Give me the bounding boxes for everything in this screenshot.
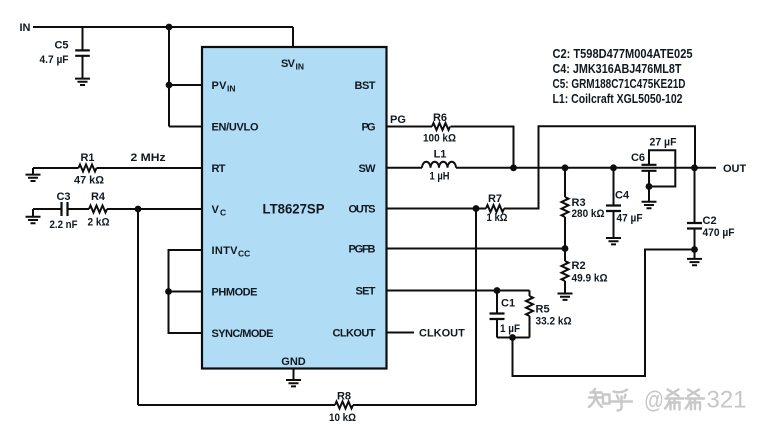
svg-text:C5: C5: [54, 40, 68, 52]
svg-text:PG: PG: [390, 114, 406, 126]
pin label CLKOUT: [333, 328, 376, 340]
wire SVIN drop: [292, 27, 294, 47]
wire VC line: [33, 208, 202, 210]
wire feedback column right: [475, 209, 477, 406]
IC U1 LT8627SP body: [202, 47, 387, 369]
inductor L1: [422, 149, 456, 183]
node CLKOUT label: [419, 328, 465, 340]
ground IC GND: [286, 369, 301, 387]
svg-text:V: V: [212, 204, 220, 216]
svg-text:R2: R2: [572, 260, 586, 272]
wire PGFB line: [387, 248, 566, 250]
wire CLKOUT stub: [387, 332, 415, 334]
svg-text:BST: BST: [355, 80, 376, 92]
capacitor C5: [40, 27, 90, 78]
capacitor C3: [50, 191, 78, 231]
junction SW/C4: [610, 164, 617, 171]
ground C5: [75, 79, 90, 85]
capacitor C2: [687, 168, 735, 250]
wire feedback column left: [137, 209, 139, 405]
pin label GND: [281, 356, 306, 368]
wire RT line: [33, 167, 202, 169]
pin label SW: [359, 163, 377, 175]
svg-text:INTV: INTV: [212, 245, 239, 257]
svg-text:C2: C2: [703, 215, 717, 227]
junction OUTS / feedback column: [473, 205, 480, 212]
junction OUT node: [691, 164, 698, 171]
wire C1R5 top: [497, 290, 530, 292]
svg-text:C2: T598D477M004ATE025: C2: T598D477M004ATE025: [553, 46, 693, 61]
svg-text:CC: CC: [238, 249, 250, 259]
svg-text:L1: Coilcraft XGL5050-102: L1: Coilcraft XGL5050-102: [553, 91, 683, 106]
svg-text:OUTS: OUTS: [349, 204, 376, 216]
svg-text:SW: SW: [359, 163, 377, 175]
resistor R3: [562, 168, 605, 249]
svg-text:C: C: [220, 208, 226, 218]
junction PVIN: [166, 82, 173, 89]
svg-text:2 kΩ: 2 kΩ: [88, 217, 110, 229]
svg-text:100 kΩ: 100 kΩ: [423, 132, 456, 144]
pin label INTVCC: [212, 245, 251, 259]
pin label SVIN: [281, 58, 304, 72]
pin label OUTS: [349, 204, 376, 216]
junction SW/R3: [562, 164, 569, 171]
wire IN rail: [33, 26, 293, 28]
svg-text:LT8627SP: LT8627SP: [263, 201, 325, 217]
svg-text:PV: PV: [212, 80, 228, 92]
svg-text:1 kΩ: 1 kΩ: [487, 212, 508, 224]
wire PVIN: [169, 84, 202, 86]
svg-text:R6: R6: [433, 112, 447, 124]
wire input column: [168, 27, 170, 127]
wire OUTS line: [387, 126, 696, 208]
pin label EN/UVLO: [212, 122, 259, 134]
svg-text:33.2 kΩ: 33.2 kΩ: [536, 316, 572, 328]
svg-text:C5: GRM188C71C475KE21D: C5: GRM188C71C475KE21D: [553, 76, 686, 91]
svg-text:OUT: OUT: [723, 163, 747, 175]
svg-text:C4: JMK316ABJ476ML8T: C4: JMK316ABJ476ML8T: [553, 61, 682, 76]
svg-text:RT: RT: [212, 163, 226, 175]
wire SET line: [387, 290, 498, 292]
pin label VC: [212, 204, 227, 218]
wire C1R5 bottom: [497, 337, 530, 339]
ground C6: [642, 187, 657, 209]
pin label PHMODE: [212, 287, 258, 299]
svg-text:C6: C6: [631, 152, 645, 164]
svg-text:R5: R5: [536, 304, 550, 316]
ground C2: [687, 250, 702, 266]
watermark zhihu: [589, 389, 704, 411]
svg-text:27 µF: 27 µF: [650, 137, 677, 149]
junction C2 bottom: [691, 246, 698, 253]
pin label BST: [355, 80, 376, 92]
capacitor C1: [490, 291, 521, 338]
ground C4: [606, 238, 621, 244]
pin label SYNC/MODE: [212, 328, 274, 340]
svg-text:CLKOUT: CLKOUT: [333, 328, 376, 340]
node IN: [20, 22, 31, 34]
svg-text:10 kΩ: 10 kΩ: [329, 412, 356, 424]
svg-text:4.7 µF: 4.7 µF: [40, 54, 69, 66]
svg-text:CLKOUT: CLKOUT: [419, 328, 465, 340]
svg-text:1 µF: 1 µF: [500, 323, 520, 335]
wire C2 bottom return: [513, 250, 695, 377]
svg-text:280 kΩ: 280 kΩ: [572, 208, 605, 220]
svg-text:L1: L1: [434, 149, 447, 161]
node OUT: [723, 163, 747, 175]
svg-text:EN/UVLO: EN/UVLO: [212, 122, 259, 134]
svg-text:1 µH: 1 µH: [430, 171, 450, 183]
junction VC / feedback column: [135, 206, 142, 213]
svg-text:R4: R4: [91, 191, 106, 203]
ground VC: [26, 209, 41, 223]
junction PGFB divider: [562, 245, 569, 252]
junction PHMODE: [165, 288, 172, 295]
svg-text:SV: SV: [281, 58, 296, 70]
capacitor C4: [606, 168, 643, 238]
svg-text:PGFB: PGFB: [349, 244, 376, 256]
svg-text:R7: R7: [488, 193, 502, 205]
resistor R1: [74, 152, 104, 187]
pin label PVIN: [212, 80, 236, 94]
svg-text:47 kΩ: 47 kΩ: [74, 175, 104, 187]
svg-text:GND: GND: [281, 356, 306, 368]
ground RT: [26, 168, 41, 181]
wire PG line: [387, 127, 514, 168]
resistor R2: [562, 249, 608, 294]
svg-text:PHMODE: PHMODE: [212, 287, 258, 299]
resistor R7: [486, 193, 508, 224]
svg-text:470 µF: 470 µF: [703, 227, 735, 239]
resistor R8: [329, 391, 356, 425]
junction IN rail / input column: [166, 24, 173, 31]
junction PG/SW: [510, 164, 517, 171]
svg-text:C3: C3: [56, 191, 70, 203]
wire C6 bypass loop: [649, 137, 677, 187]
svg-text:C4: C4: [615, 190, 630, 202]
svg-text:C1: C1: [501, 298, 515, 310]
pin label RT: [212, 163, 226, 175]
ground R2: [558, 294, 573, 300]
label 2 MHz: [131, 152, 167, 164]
svg-text:IN: IN: [227, 84, 236, 94]
svg-text:321: 321: [707, 387, 747, 414]
svg-text:R1: R1: [80, 152, 94, 164]
svg-text:SYNC/MODE: SYNC/MODE: [212, 328, 274, 340]
svg-text:2.2 nF: 2.2 nF: [50, 219, 78, 231]
wire PHMODE: [169, 291, 203, 293]
pin label SET: [356, 286, 376, 298]
svg-text:R8: R8: [337, 391, 351, 403]
pin label PG: [362, 122, 376, 134]
svg-text:49.9 kΩ: 49.9 kΩ: [572, 273, 608, 285]
wire INTVCC: [169, 250, 203, 333]
svg-text:47 µF: 47 µF: [617, 213, 643, 225]
wire SW line: [387, 167, 717, 169]
resistor R4: [88, 191, 110, 229]
node PG label: [390, 114, 406, 126]
junction C6 bottom: [646, 183, 653, 190]
svg-text:2 MHz: 2 MHz: [131, 152, 167, 164]
resistor R6: [423, 112, 456, 144]
pin label PGFB: [349, 244, 376, 256]
wire EN/UVLO: [169, 126, 202, 128]
capacitor C6: [631, 152, 657, 187]
svg-text:@: @: [644, 387, 664, 414]
note BOM list: [553, 46, 693, 106]
svg-text:SET: SET: [356, 286, 376, 298]
wire R8 bottom line: [138, 404, 476, 406]
svg-text:IN: IN: [20, 22, 31, 34]
resistor R5: [526, 291, 572, 338]
junction C1R5 bottom: [509, 334, 516, 341]
svg-text:IN: IN: [296, 62, 305, 72]
junction SET/C1: [494, 287, 501, 294]
svg-text:PG: PG: [362, 122, 376, 134]
